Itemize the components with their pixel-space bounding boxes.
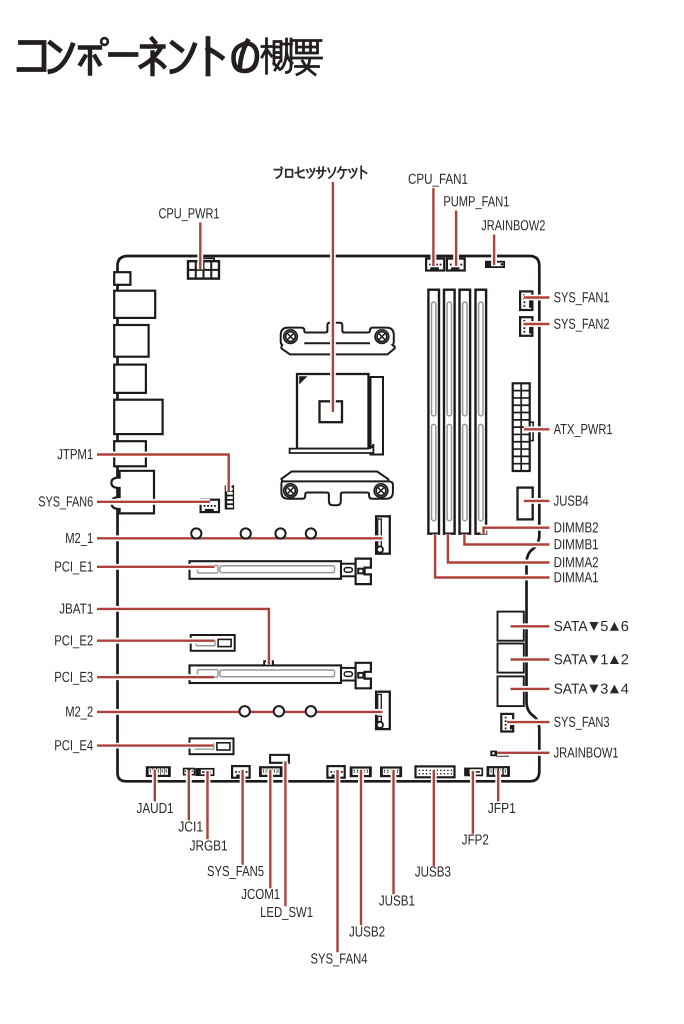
svg-text:CPU_PWR1: CPU_PWR1 xyxy=(158,206,219,222)
svg-text:4: 4 xyxy=(621,682,629,698)
svg-text:JRAINBOW2: JRAINBOW2 xyxy=(481,218,545,234)
leader line JRGB1 xyxy=(205,771,211,839)
svg-text:SYS_FAN1: SYS_FAN1 xyxy=(554,290,610,306)
rear I/O audio block xyxy=(111,471,154,514)
rear I/O block 2 xyxy=(114,291,155,318)
motherboard outline xyxy=(118,256,540,781)
svg-text:JUSB3: JUSB3 xyxy=(415,864,451,880)
JBAT1 connector xyxy=(263,660,274,667)
PCI_E3 latch xyxy=(341,663,371,689)
DIMM slot DIMMA1 xyxy=(428,290,439,534)
connector SYS_FAN2 xyxy=(520,317,532,336)
leader line SATA 5/6 xyxy=(511,623,550,629)
leader line SYS_FAN5 xyxy=(240,770,246,865)
PCI_E2 slot xyxy=(191,635,235,651)
leader line M2_1 xyxy=(97,535,383,541)
connector JTPM1 xyxy=(225,485,234,509)
svg-text:M2_1: M2_1 xyxy=(65,531,93,547)
connector JRAINBOW1 xyxy=(490,751,509,757)
svg-text:JTPM1: JTPM1 xyxy=(57,447,93,463)
CPU retention bracket bottom xyxy=(281,472,393,506)
leader line SYS_FAN3 xyxy=(507,719,550,725)
M2_2 standoff holes xyxy=(240,706,317,716)
leader line DIMMA2 xyxy=(448,534,550,562)
leader line JFP2 xyxy=(470,771,476,834)
svg-text:SYS_FAN2: SYS_FAN2 xyxy=(554,317,610,333)
rear I/O block 4 xyxy=(114,365,146,393)
leader line DIMMB1 xyxy=(464,534,549,544)
connector SATA 3/4 xyxy=(498,676,524,706)
leader line processor socket xyxy=(330,182,336,412)
svg-text:PCI_E4: PCI_E4 xyxy=(54,738,93,754)
connector JUSB4 xyxy=(518,488,533,520)
connector JCI1 xyxy=(184,769,195,775)
connector LED_SW1 xyxy=(270,755,289,763)
leader line JUSB3 xyxy=(431,770,437,866)
leader line SATA 3/4 xyxy=(511,686,550,692)
svg-text:JAUD1: JAUD1 xyxy=(136,801,173,817)
leader line JFP1 xyxy=(495,770,501,802)
connector SYS_FAN1 xyxy=(520,291,532,310)
M2_1 connector xyxy=(376,516,390,553)
connector SYS_FAN6 xyxy=(201,500,219,512)
connector ATX_PWR1 xyxy=(513,383,533,471)
svg-text:DIMMB2: DIMMB2 xyxy=(554,520,599,536)
label processor socket (プロセッサソケット) xyxy=(275,166,367,178)
DIMM slot DIMMB2 xyxy=(476,290,487,534)
connector JUSB2 xyxy=(350,766,372,777)
leader line JTPM1 xyxy=(97,455,229,492)
bracket screw bottom-right xyxy=(374,484,388,498)
leader line JUSB4 xyxy=(524,498,550,504)
svg-text:JUSB4: JUSB4 xyxy=(554,494,589,510)
title コンポーネントの概要 xyxy=(19,38,322,74)
connector SYS_FAN5 xyxy=(232,766,250,778)
connector PUMP_FAN1 xyxy=(447,259,465,271)
label SATA 5/6 xyxy=(554,619,629,635)
svg-text:PUMP_FAN1: PUMP_FAN1 xyxy=(443,194,509,210)
leader line CPU_PWR1 xyxy=(197,223,203,270)
svg-text:DIMMA2: DIMMA2 xyxy=(554,555,599,571)
connector SATA 1/2 xyxy=(498,644,524,673)
svg-text:LED_SW1: LED_SW1 xyxy=(260,905,313,921)
svg-text:SATA: SATA xyxy=(554,619,588,635)
leader line SYS_FAN4 xyxy=(335,770,341,952)
svg-text:SATA: SATA xyxy=(554,682,588,698)
connector JRGB1 xyxy=(196,769,213,775)
svg-text:SYS_FAN6: SYS_FAN6 xyxy=(38,494,93,510)
connector JUSB3 xyxy=(416,766,455,777)
leader line JUSB1 xyxy=(391,770,397,894)
leader line LED_SW1 xyxy=(282,762,288,906)
connector JUSB1 xyxy=(380,766,402,777)
connector JRAINBOW2 xyxy=(486,262,504,267)
PCI_E1 latch xyxy=(341,559,371,585)
svg-text:JUSB1: JUSB1 xyxy=(379,893,415,909)
leader line JCOM1 xyxy=(267,770,273,888)
svg-text:5: 5 xyxy=(600,619,608,635)
leader line ATX_PWR1 xyxy=(524,426,550,432)
rear I/O block 3 xyxy=(114,325,148,357)
svg-text:1: 1 xyxy=(600,652,608,668)
leader line SATA 1/2 xyxy=(511,657,550,663)
connector JCOM1 xyxy=(259,766,283,777)
svg-text:DIMMB1: DIMMB1 xyxy=(554,537,599,553)
leader line CPU_FAN1 xyxy=(430,188,436,266)
leader line SYS_FAN2 xyxy=(524,321,550,327)
svg-text:JRAINBOW1: JRAINBOW1 xyxy=(554,746,619,762)
svg-text:SYS_FAN5: SYS_FAN5 xyxy=(207,864,264,880)
leader line DIMMB2 xyxy=(484,528,550,535)
leader line JBAT1 xyxy=(97,609,269,665)
svg-text:3: 3 xyxy=(600,682,608,698)
svg-text:2: 2 xyxy=(621,652,629,668)
leader line PCI_E2 xyxy=(97,638,214,644)
connector CPU_PWR1 xyxy=(188,258,219,278)
svg-text:SYS_FAN3: SYS_FAN3 xyxy=(554,715,610,731)
svg-text:SATA: SATA xyxy=(554,652,588,668)
rear I/O block 1 xyxy=(114,272,130,285)
leader line SYS_FAN6 xyxy=(97,499,210,505)
PCI_E1 slot xyxy=(190,561,342,579)
connector SATA 5/6 xyxy=(498,612,524,641)
leader line JAUD1 xyxy=(152,770,158,802)
leader line JUSB2 xyxy=(358,770,364,925)
M2_1 standoff holes xyxy=(191,528,316,538)
rear I/O block 5 xyxy=(114,400,162,434)
svg-text:PCI_E2: PCI_E2 xyxy=(54,633,93,649)
DIMM slot DIMMA2 xyxy=(444,290,455,534)
svg-text:SYS_FAN4: SYS_FAN4 xyxy=(310,951,367,967)
connector SYS_FAN4 xyxy=(327,766,344,778)
M2_2 connector xyxy=(376,692,390,729)
leader line DIMMA1 xyxy=(435,534,549,577)
svg-text:PCI_E3: PCI_E3 xyxy=(54,670,93,686)
connector JFP1 xyxy=(487,766,510,777)
PCI_E3 slot xyxy=(190,665,342,683)
bracket screw top-left xyxy=(284,330,298,344)
svg-text:PCI_E1: PCI_E1 xyxy=(54,559,93,575)
CPU retention bracket top xyxy=(281,323,395,355)
rear I/O block 6 xyxy=(114,441,146,466)
leader line PCI_E1 xyxy=(97,564,215,570)
svg-text:DIMMA1: DIMMA1 xyxy=(554,570,599,586)
connector JFP2 xyxy=(465,768,482,775)
svg-text:6: 6 xyxy=(621,619,629,635)
leader line JCI1 xyxy=(186,770,192,820)
leader line JRAINBOW2 xyxy=(491,235,497,266)
bracket screw top-right xyxy=(375,330,389,344)
leader line PCI_E3 xyxy=(97,674,214,680)
svg-text:CPU_FAN1: CPU_FAN1 xyxy=(408,172,468,188)
PCI_E4 slot xyxy=(190,738,234,754)
leader line JRAINBOW1 xyxy=(497,750,550,756)
label SATA 3/4 xyxy=(554,682,629,698)
bracket screw bottom-left xyxy=(284,484,298,498)
CPU socket body xyxy=(290,374,383,455)
svg-text:M2_2: M2_2 xyxy=(65,705,93,721)
leader line M2_2 xyxy=(97,709,383,715)
leader line SYS_FAN1 xyxy=(524,295,550,301)
DIMM slot DIMMB1 xyxy=(460,290,471,534)
svg-text:JFP2: JFP2 xyxy=(462,832,489,848)
connector JAUD1 xyxy=(146,766,171,777)
svg-text:JUSB2: JUSB2 xyxy=(349,924,385,940)
svg-text:ATX_PWR1: ATX_PWR1 xyxy=(554,422,613,438)
svg-text:JCI1: JCI1 xyxy=(178,819,203,835)
svg-text:JFP1: JFP1 xyxy=(488,801,516,817)
svg-text:JCOM1: JCOM1 xyxy=(241,887,280,903)
label SATA 1/2 xyxy=(554,652,629,668)
leader line PUMP_FAN1 xyxy=(453,211,459,267)
connector CPU_FAN1 xyxy=(426,259,444,271)
connector SYS_FAN3 xyxy=(501,714,513,732)
svg-text:JBAT1: JBAT1 xyxy=(59,602,93,618)
leader line PCI_E4 xyxy=(97,743,213,749)
svg-text:JRGB1: JRGB1 xyxy=(190,838,228,854)
